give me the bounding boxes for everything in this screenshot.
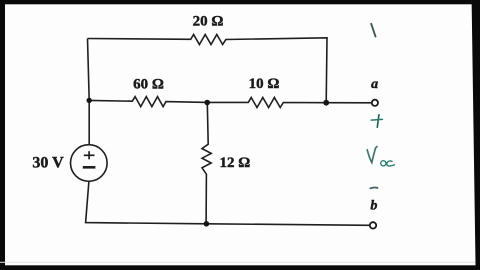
svg-text:10 Ω: 10 Ω	[249, 76, 280, 92]
svg-text:60 Ω: 60 Ω	[133, 76, 164, 92]
svg-text:12 Ω: 12 Ω	[220, 155, 251, 171]
svg-text:a: a	[371, 77, 378, 92]
svg-text:30 V: 30 V	[32, 154, 64, 171]
svg-text:b: b	[370, 199, 377, 214]
svg-text:20 Ω: 20 Ω	[193, 14, 224, 30]
